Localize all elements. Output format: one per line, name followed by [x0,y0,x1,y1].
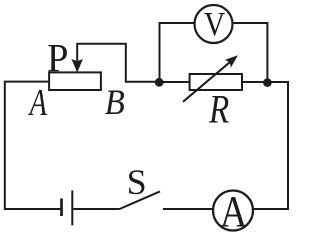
svg-text:B: B [105,83,125,123]
svg-text:V: V [204,5,225,42]
svg-text:R: R [208,87,229,132]
svg-text:P: P [47,37,68,81]
svg-text:A: A [220,186,248,233]
svg-text:S: S [127,162,147,202]
svg-text:A: A [28,82,48,124]
